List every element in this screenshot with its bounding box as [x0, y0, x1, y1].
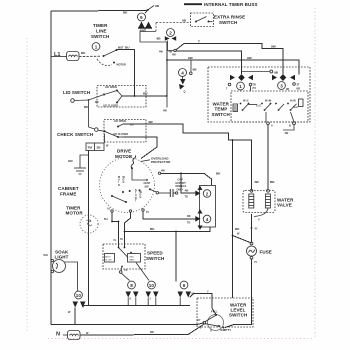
svg-text:6: 6 [183, 283, 186, 288]
wire: valve solenoids join [254, 208, 268, 217]
wire: check sw upper output 4W [118, 124, 123, 127]
svg-text:4W: 4W [148, 120, 153, 124]
wire: branch to water level switch BK [232, 140, 234, 298]
wire: speed sw to connector 8 [121, 266, 123, 268]
connector 10 [148, 281, 156, 289]
svg-text:9W: 9W [188, 56, 193, 60]
wire: buss to connector 6 [175, 232, 177, 282]
svg-text:3T: 3T [297, 84, 300, 87]
cold solenoid [249, 194, 254, 208]
svg-text:RD: RD [187, 215, 191, 218]
connector 4 (block) [203, 215, 211, 223]
wire: empty contact to fuse line [225, 259, 252, 328]
water valve box [243, 191, 275, 213]
svg-text:2: 2 [206, 192, 209, 197]
svg-text:Y: Y [207, 290, 209, 293]
svg-text:FRAME: FRAME [60, 192, 77, 197]
wire: check sw lower output to overload [118, 136, 123, 138]
wire: 9B box down to buss [166, 42, 168, 96]
motor bottom pins [111, 210, 113, 212]
svg-text:A: A [210, 330, 212, 333]
wire stub 4W below lid junction [166, 96, 168, 108]
wire: N line to water level pivot [80, 325, 204, 336]
svg-text:2B: 2B [97, 146, 102, 150]
svg-text:SPEED: SPEED [147, 251, 163, 256]
extra rinse switch [156, 22, 191, 24]
svg-text:H+W: H+W [290, 100, 296, 103]
connector 10 (soak) [75, 291, 83, 299]
water level switch [208, 315, 224, 331]
motor pin 4W right [158, 172, 160, 174]
wire: buss drop to temp sw contact 1 [241, 60, 243, 74]
svg-text:SWITCH: SWITCH [219, 20, 237, 25]
wire: speed sw to connector 10 [136, 263, 149, 281]
svg-text:BU: BU [125, 45, 130, 49]
svg-text:4W: 4W [161, 170, 165, 173]
svg-text:2: 2 [169, 31, 172, 36]
svg-text:Q: Q [184, 91, 186, 94]
svg-text:4W: 4W [285, 132, 289, 135]
connector 2 (block) [203, 190, 211, 198]
connector 1 (temp sw wash) [230, 75, 235, 80]
svg-text:TD: TD [187, 222, 191, 225]
svg-text:7: 7 [226, 88, 228, 91]
drive motor circle [100, 158, 155, 213]
svg-text:SLOW: SLOW [105, 260, 111, 262]
wire: main timer buss 9W y60 [167, 60, 299, 75]
svg-text:W: W [106, 145, 109, 148]
check switch box [104, 120, 146, 143]
svg-text:W: W [237, 233, 240, 236]
svg-text:MOTOR: MOTOR [66, 211, 84, 216]
svg-text:DRIVE: DRIVE [117, 149, 131, 154]
svg-text:VALVE: VALVE [277, 203, 292, 208]
svg-text:W: W [68, 311, 71, 314]
svg-text:6Y: 6Y [198, 319, 201, 322]
wire: lid sw output BU [117, 91, 122, 97]
svg-text:4Y: 4Y [255, 228, 258, 231]
legend: internal timer buss [184, 3, 202, 5]
svg-text:MOTOR: MOTOR [115, 154, 133, 159]
svg-text:RD: RD [84, 105, 89, 109]
svg-text:TEMP: TEMP [215, 107, 228, 112]
svg-text:AGIT/: AGIT/ [105, 255, 111, 258]
page crop mark left [26, 38, 28, 332]
noise filter N [68, 331, 81, 340]
wire: diag branch to fuse [233, 236, 252, 244]
terminal box TM 2B [86, 143, 104, 151]
water level switch box [197, 298, 253, 327]
svg-text:MAIN: MAIN [118, 176, 120, 187]
svg-text:N: N [56, 332, 60, 338]
wire: buss BK bottom [125, 227, 211, 232]
svg-text:W: W [86, 332, 89, 335]
svg-text:1: 1 [150, 298, 152, 301]
svg-text:LINE: LINE [96, 29, 107, 34]
svg-text:RD: RD [95, 101, 99, 104]
connector 6 terminals [178, 292, 184, 298]
wire: motor RD to connector 4 [143, 211, 195, 219]
svg-text:T: T [198, 39, 200, 43]
wire: pin A to hot valve [267, 125, 269, 190]
svg-text:WDG: WDG [140, 191, 143, 199]
svg-text:BK: BK [81, 51, 86, 55]
svg-text:4Y: 4Y [254, 261, 257, 264]
svg-text:4W: 4W [254, 180, 259, 184]
svg-text:FUSE: FUSE [260, 250, 272, 255]
svg-text:1: 1 [95, 44, 98, 49]
page crop mark bottom [48, 338, 314, 340]
wire: temp sw pin row 9B [242, 71, 271, 73]
svg-text:1: 1 [239, 84, 242, 89]
svg-text:RED: RED [130, 256, 135, 258]
svg-text:BR: BR [297, 88, 301, 91]
wire: connector 6 to water level fill [190, 294, 217, 315]
svg-text:W+C: W+C [243, 100, 249, 103]
connector 10 terminals [146, 292, 152, 298]
svg-text:CABINET: CABINET [58, 186, 79, 191]
svg-text:9: 9 [140, 15, 143, 20]
wire: connector 2 to temp switch contact 1 [176, 51, 241, 60]
svg-text:EMPTY: EMPTY [221, 328, 233, 332]
wire: motor aux to connector 2 [181, 173, 196, 193]
wire: lid pivot down RD [89, 95, 105, 101]
svg-text:BU: BU [104, 218, 108, 221]
wire: left border L1-N [51, 11, 76, 325]
connector 8 [128, 281, 136, 289]
svg-text:EXTRA RINSE: EXTRA RINSE [214, 15, 245, 20]
motor main winding wire [132, 168, 147, 180]
connector 2 [167, 29, 175, 37]
svg-text:A1: A1 [107, 208, 111, 211]
lid switch box [97, 86, 146, 108]
svg-text:A: A [271, 125, 273, 128]
svg-text:BU: BU [143, 92, 148, 96]
svg-text:10: 10 [76, 293, 82, 298]
svg-text:9B: 9B [193, 68, 198, 72]
wire: motor to connector block top [161, 173, 212, 185]
svg-text:4: 4 [181, 71, 184, 76]
svg-text:START: START [135, 189, 137, 202]
connector 9 [138, 13, 146, 21]
svg-text:FL: FL [114, 239, 118, 242]
svg-text:9B: 9B [157, 37, 162, 41]
wire: 2B to timer motor [88, 151, 90, 306]
svg-text:8: 8 [130, 283, 133, 288]
svg-text:FAST: FAST [130, 259, 136, 262]
wire: motor main to speed sw [125, 212, 131, 247]
svg-text:TD: TD [185, 196, 189, 199]
temp sw bottom pins A B [267, 122, 270, 125]
svg-text:ONLY: ONLY [177, 188, 184, 191]
speed switch box [103, 244, 145, 269]
svg-text:9W: 9W [150, 331, 154, 334]
svg-text:PU: PU [253, 87, 257, 90]
capacitor [158, 192, 170, 194]
svg-text:L1: L1 [54, 52, 61, 58]
svg-text:B: B [289, 125, 291, 128]
svg-text:FL: FL [125, 269, 129, 272]
fuse [250, 242, 253, 245]
svg-text:BK: BK [235, 227, 240, 231]
svg-text:TM: TM [88, 146, 93, 150]
wire: connector 2 to timer buss T [176, 44, 184, 50]
svg-text:9W: 9W [247, 56, 252, 60]
wire: L1 to timer line switch [51, 56, 67, 58]
connector 3 (temp sw rinse) [272, 75, 277, 80]
ground cabinet [80, 155, 89, 168]
svg-text:BR: BR [270, 180, 275, 184]
svg-text:MOTOR: MOTOR [117, 64, 126, 67]
noise filter L1 [67, 52, 80, 61]
svg-text:4W: 4W [172, 54, 176, 57]
svg-text:CHECK SWITCH: CHECK SWITCH [57, 132, 93, 137]
svg-text:4W: 4W [185, 190, 189, 193]
svg-text:4W: 4W [163, 110, 167, 113]
svg-text:T: T [200, 327, 202, 330]
svg-text:50: 50 [120, 238, 123, 241]
svg-text:LID CLOSED: LID CLOSED [103, 105, 118, 108]
wire: soak conn to N buss [74, 308, 76, 325]
svg-text:SWITCH: SWITCH [146, 256, 164, 261]
svg-text:C+C: C+C [256, 105, 261, 108]
svg-text:V: V [258, 219, 260, 222]
svg-text:SW: SW [145, 186, 150, 189]
svg-text:BK: BK [150, 227, 155, 231]
svg-text:MOT: MOT [118, 47, 124, 50]
svg-text:FILL: FILL [211, 310, 218, 314]
wire: collector buss [84, 305, 190, 307]
svg-text:WH: WH [44, 254, 48, 257]
svg-text:4W: 4W [159, 51, 163, 54]
water temp switch outer box [208, 67, 310, 122]
svg-text:SWITCH: SWITCH [229, 313, 247, 318]
svg-text:9W: 9W [271, 44, 276, 48]
svg-text:LID CLOSED: LID CLOSED [113, 133, 128, 136]
svg-text:10: 10 [149, 283, 155, 288]
lid switch pin 8 [75, 99, 89, 102]
node 9B top [148, 6, 154, 10]
svg-text:PROTECTOR: PROTECTOR [151, 160, 171, 164]
svg-text:BK: BK [123, 11, 128, 15]
temp switch internals [233, 104, 238, 112]
connector 1 [92, 43, 100, 51]
svg-text:SWITCH: SWITCH [212, 112, 230, 117]
svg-text:LID OPEN: LID OPEN [105, 86, 117, 89]
water temp switch inner box [231, 91, 308, 122]
connector block 2/4 [200, 186, 216, 228]
svg-text:9B: 9B [286, 88, 289, 91]
svg-text:TIMER: TIMER [93, 23, 108, 28]
svg-text:WDG: WDG [123, 176, 126, 184]
svg-text:3: 3 [280, 84, 283, 89]
svg-text:GR: GR [68, 159, 73, 163]
svg-text:LID OPEN: LID OPEN [114, 120, 126, 123]
connector 9 terminals [139, 22, 145, 28]
svg-text:SWITCH: SWITCH [91, 34, 109, 39]
svg-text:LID SWITCH: LID SWITCH [63, 90, 90, 95]
svg-text:9B: 9B [274, 71, 279, 75]
wire: motor neutral BU [112, 212, 119, 247]
overload protector [131, 155, 135, 168]
svg-text:BK: BK [216, 172, 221, 176]
svg-text:4: 4 [206, 217, 209, 222]
wire: N buss to water level [75, 323, 204, 325]
wire: timer switch to lid switch BU [117, 50, 135, 96]
connector 6 [180, 281, 188, 289]
wire: top bus from L1 corner [51, 10, 148, 11]
svg-text:9B: 9B [182, 18, 187, 22]
check switch pivot pin [89, 127, 95, 129]
connector 4 (timer) [179, 69, 187, 77]
svg-text:5Y: 5Y [146, 211, 149, 214]
svg-text:8: 8 [130, 298, 132, 301]
motor contacts [122, 191, 124, 193]
wire: soak light to connector 10b [65, 262, 78, 291]
svg-text:LIGHT: LIGHT [55, 255, 69, 260]
wire: pin B stub [283, 125, 294, 130]
svg-text:9B: 9B [155, 4, 160, 8]
terminal box 9B [144, 29, 146, 32]
svg-text:H+C: H+C [293, 106, 298, 109]
svg-text:W+W: W+W [265, 100, 272, 103]
wire: valve junction to fuse [251, 214, 253, 242]
svg-text:INTERNAL TIMER BUSS: INTERNAL TIMER BUSS [204, 2, 258, 7]
hot solenoid [265, 194, 270, 208]
connector 8 terminals [126, 292, 132, 298]
page crop mark right [314, 8, 316, 338]
